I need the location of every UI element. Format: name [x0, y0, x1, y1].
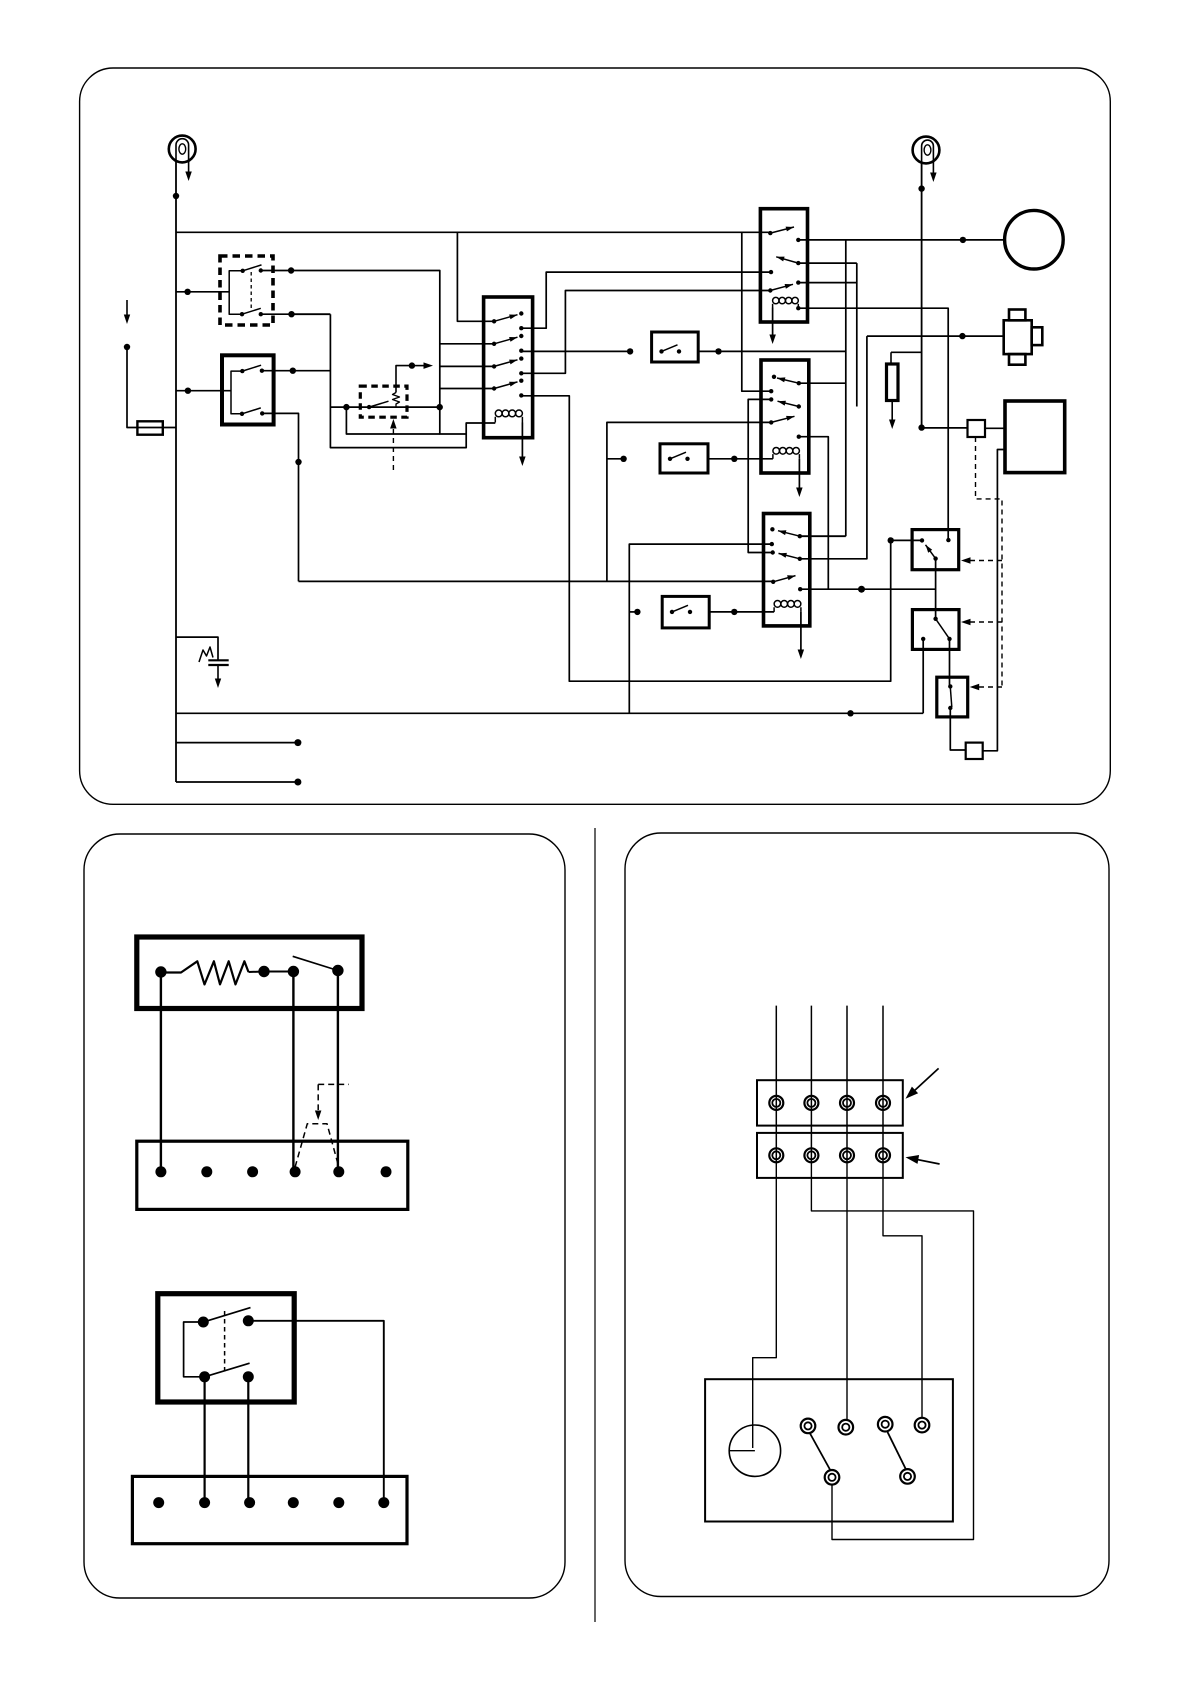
connector block CN2 — [757, 1133, 903, 1178]
junction dot — [288, 311, 294, 317]
thermostat anticipator wire — [396, 366, 412, 393]
wire to K2 common — [176, 390, 231, 392]
lamp L2 — [913, 137, 940, 164]
lamp L1 lead — [188, 160, 190, 172]
S2 contacts — [668, 457, 672, 461]
dashed jumper link — [295, 1124, 339, 1167]
wire to K3 arm4 — [440, 388, 494, 390]
CN1 pin 3 — [840, 1096, 854, 1110]
relay K3 — [484, 297, 533, 438]
thermostat switch arm — [367, 405, 371, 409]
wire K4 contact3 — [798, 282, 857, 284]
K6 contact 3 — [798, 587, 802, 591]
bottom common bus wire — [176, 712, 923, 714]
wire CN2-2 around to board switch — [811, 1162, 973, 1540]
TB1 terminal 5 — [333, 1166, 344, 1177]
K5 arm3 pivot — [769, 420, 773, 424]
junction dot — [634, 609, 640, 615]
stub wire 2 — [176, 781, 298, 783]
dashed actuator arrow to damper switch DS1 — [965, 560, 1003, 562]
K3 arm pivot 2 — [492, 342, 496, 346]
wire K3 out3 to K4 arm — [521, 291, 770, 374]
bottom-right panel border — [625, 833, 1109, 1597]
DS2 pivot — [947, 637, 951, 641]
K5 arm2 pivot — [797, 404, 801, 408]
PCB switch SW1 — [810, 1433, 831, 1471]
CN2 pin 3 — [840, 1148, 854, 1162]
buzzer B1 — [729, 1425, 780, 1476]
wire into damper switch DS1 — [891, 539, 922, 541]
DS2 switch arm — [936, 619, 950, 639]
K6 switch arm 1 — [778, 531, 800, 537]
K4 contact 1 — [796, 238, 800, 242]
DS1 contact R — [946, 538, 950, 542]
K3 switch arm 1 — [494, 315, 517, 322]
stub wire 1 — [176, 742, 298, 744]
mechanical link (dashed) — [224, 1311, 226, 1372]
K5 contact 2t — [769, 397, 773, 401]
wire DS2 to DS3 — [949, 639, 951, 687]
wire terminal3 to strip — [204, 1377, 206, 1503]
K3 NO contact 3 — [519, 356, 523, 360]
K1 contact pivot b — [240, 312, 244, 316]
relay terminal 1 — [198, 1317, 209, 1328]
arrow pointing to CN1 — [911, 1068, 938, 1093]
wire CN2-3 to board — [846, 1162, 848, 1420]
wire K5 to K6 contact — [748, 399, 773, 552]
wire OL to control box — [985, 427, 1005, 429]
dashed actuator arrow to damper switch DS2 — [965, 621, 1003, 623]
PCB pad 2 — [839, 1420, 854, 1435]
relay terminal 3 — [199, 1371, 210, 1382]
wire CN2-1 to board buzzer — [753, 1162, 777, 1448]
arrow down from L2 — [930, 173, 937, 183]
K6 arm2 pivot — [798, 557, 802, 561]
TB2 terminal 4 — [288, 1497, 299, 1508]
lead wire 1 — [775, 1006, 777, 1162]
K3 output contact 3 — [519, 371, 523, 375]
main wiring diagram panel border — [80, 68, 1111, 804]
wire K6 to bus x629 — [629, 544, 772, 713]
wire from K1 contact a — [261, 270, 291, 272]
K3 arm pivot 3 — [492, 364, 496, 368]
connector block CN1 — [757, 1080, 903, 1125]
top horizontal supply wire — [176, 231, 770, 233]
K3 arm pivot 4 — [492, 386, 496, 390]
wire B to C — [264, 971, 293, 973]
wire through thermostat — [330, 406, 441, 408]
junction dot — [847, 710, 853, 716]
arrow to external connection — [412, 365, 426, 367]
TB1 terminal 3 — [247, 1166, 258, 1177]
relay K4 — [760, 209, 807, 322]
node on left branch — [124, 344, 130, 350]
PCB pad 3 — [878, 1417, 893, 1432]
junction dot — [290, 368, 296, 374]
lamp L2 lead — [932, 161, 934, 173]
TB1 terminal 2 — [201, 1166, 212, 1177]
S1 contacts — [659, 349, 663, 353]
wire K4 to fan motor — [798, 239, 1004, 241]
K1 mechanical link (dashed) — [250, 272, 252, 310]
TB2 terminal 2 — [199, 1497, 210, 1508]
wire K3 out2 to switch S1 — [521, 350, 630, 352]
protector plate 1 — [208, 659, 228, 661]
K5 contact 1 — [769, 389, 773, 393]
damper switch DS1 — [912, 530, 959, 570]
switch S1 — [652, 332, 699, 362]
terminal strip TB1 — [137, 1141, 408, 1209]
wire CN2-4 to board — [883, 1162, 922, 1418]
TB1 terminal 4 — [290, 1166, 301, 1177]
relay K5 — [761, 360, 809, 473]
long wire to relay K5 arm — [299, 580, 774, 582]
CN2 pin 2 — [804, 1148, 818, 1162]
fan motor M1 — [1005, 210, 1064, 269]
buzzer pointer line — [729, 1450, 755, 1452]
K6 coil lead arrow down — [800, 612, 802, 650]
K6 switch arm 2 — [779, 553, 800, 558]
K1 switch arm b — [242, 308, 261, 314]
K6 contact 1t — [770, 527, 774, 531]
wire S2 to K5 coil — [708, 458, 773, 460]
wire terminal2 to strip — [248, 1321, 383, 1503]
arrow pointing to CN2 — [911, 1158, 940, 1164]
K2 switch arm a — [242, 365, 261, 371]
lamp L2 vertical wire — [921, 163, 923, 428]
incoming supply arrow — [126, 300, 128, 315]
wire bus to switch S3 — [629, 611, 637, 613]
vertical wire to K5 arm2 — [856, 263, 858, 406]
K2 contact pivot b — [240, 412, 244, 416]
wire K6 arm1 to motor-line vertical — [800, 535, 846, 537]
vertical wire motor line to K6 arm — [845, 240, 847, 536]
junction dot — [959, 333, 965, 339]
K5 arm1 pivot — [797, 381, 801, 385]
DS1 switch arm — [926, 545, 936, 559]
K4 arm3 pivot — [768, 288, 772, 292]
K2 contact a — [260, 369, 264, 373]
wire to K1 common — [176, 291, 229, 293]
PCB pad 6 — [900, 1469, 915, 1484]
K3 switch arm 4 — [494, 382, 517, 389]
K6 contact 1 — [770, 542, 774, 546]
wire DS3 to terminal — [950, 708, 965, 750]
wire K5 contact3 down — [799, 437, 829, 590]
relay K6 — [764, 514, 810, 626]
TB2 terminal 5 — [333, 1497, 344, 1508]
DS1 contact L — [920, 538, 924, 542]
overload protector OL — [968, 420, 986, 437]
wire K4 contact2 — [798, 262, 857, 264]
wire K1a feeding K3 switch bank — [291, 271, 466, 435]
K2 common bracket — [231, 371, 242, 414]
PCB pad 4 — [915, 1418, 930, 1433]
interlock switch DS3 — [937, 677, 968, 717]
PCB switch SW2 — [887, 1431, 906, 1470]
junction dot — [731, 456, 737, 462]
wire to dropping resistor — [891, 351, 922, 353]
junction dot — [185, 388, 191, 394]
thermostat TH (dashed outline) — [360, 386, 407, 417]
K5 switch arm 2 — [778, 401, 799, 406]
junction dot — [620, 456, 626, 462]
CN1 pin 2 — [804, 1096, 818, 1110]
K3 output contact 2 — [519, 349, 523, 353]
DS2 contact B — [921, 637, 925, 641]
wire K6 contact3 to damper circuit — [800, 588, 935, 590]
auxiliary heater relay box — [137, 937, 362, 1009]
DS1 pivot — [933, 556, 937, 560]
TB1 terminal 6 — [381, 1166, 392, 1177]
K3 NO contact 1 — [519, 311, 523, 315]
heater terminal C — [288, 966, 299, 977]
divider line between bottom panels — [594, 828, 596, 1622]
K4 coil lead arrow down — [772, 308, 774, 336]
DS2 contact T — [933, 617, 937, 621]
heater switch arm — [293, 956, 338, 970]
fuse F1 — [137, 421, 162, 434]
junction dot on K2b wire — [295, 459, 301, 465]
control box / thermostat unit — [1005, 401, 1065, 473]
wire from K1 contact b — [261, 313, 292, 315]
K3 output contact 4 — [519, 393, 523, 397]
junction dot — [627, 348, 633, 354]
K3 NO contact 2 — [519, 334, 523, 338]
CN2 pin 1 — [769, 1148, 783, 1162]
K3 switch arm 3 — [494, 360, 517, 367]
bottom-left panel border — [84, 834, 565, 1598]
reversing valve solenoid — [1004, 310, 1043, 365]
relay K1 (dashed outline) — [220, 256, 273, 325]
K3 output contact 1 — [519, 326, 523, 330]
wire to thermal protector — [176, 637, 218, 660]
wire control box to interlock switch — [983, 450, 1005, 751]
terminal block T1 — [966, 743, 983, 759]
protector plate 2 — [208, 664, 228, 666]
relay switch arm 1 — [203, 1308, 250, 1323]
dashed jumper indication arrow — [318, 1083, 349, 1085]
wire K3 out1 to K4 contact — [521, 272, 771, 328]
PCB pad 5 — [825, 1470, 840, 1485]
junction dot — [343, 404, 349, 410]
K4 arm2 pivot — [796, 261, 800, 265]
arrow down from L1 — [185, 172, 192, 182]
TB2 terminal 1 — [153, 1497, 164, 1508]
junction on main vertical — [173, 193, 179, 199]
heater terminal A — [155, 966, 166, 977]
K4 switch arm 2 — [776, 257, 798, 263]
DS3 contact T — [948, 684, 952, 688]
K3 switch arm 2 — [494, 337, 517, 344]
dashed mechanical sensing line (arrow up) — [392, 424, 394, 470]
junction dot — [918, 424, 924, 430]
changeover relay box — [158, 1294, 294, 1402]
wire to K3 arm2 — [440, 343, 494, 345]
TB2 terminal 6 — [378, 1497, 389, 1508]
relay switch arm 2 — [205, 1363, 250, 1377]
heater resistor element — [166, 961, 249, 984]
K2 contact b — [260, 411, 264, 415]
switch S2 — [660, 444, 708, 473]
wire from K2 contact a — [262, 370, 293, 372]
stub terminal dot — [294, 739, 301, 746]
common bracket wire — [184, 1322, 205, 1377]
thermostat resistor element — [393, 393, 400, 408]
lead wire 4 — [882, 1006, 884, 1162]
K4 coil terminal — [796, 306, 800, 310]
wire DS2 to bottom bus — [922, 639, 924, 713]
wire thermostat link to K1a bus — [346, 407, 439, 434]
heater terminal B — [258, 966, 269, 977]
K1 contact b — [259, 312, 263, 316]
control PCB outline — [705, 1379, 953, 1521]
wire K2a to bus — [293, 370, 331, 372]
wire to overload protector — [922, 427, 968, 429]
K3 arm pivot 1 — [492, 319, 496, 323]
wire K1b to bus — [292, 313, 331, 315]
wire K5 arm3 to bus — [607, 422, 771, 581]
K4 contact 2 — [769, 270, 773, 274]
wire A to terminal strip — [160, 972, 162, 1172]
junction dot — [731, 609, 737, 615]
wire from top supply to K3 arm1 — [457, 232, 494, 321]
junction dot — [715, 348, 721, 354]
lead wire 2 — [810, 1006, 812, 1162]
wire D to terminal strip — [337, 971, 339, 1172]
junction dot — [858, 586, 865, 593]
junction dot — [288, 267, 294, 273]
stub terminal dot — [294, 779, 301, 786]
S3 contacts — [670, 610, 674, 614]
wire K6 arm2 up — [800, 336, 867, 559]
K5 contact 3 — [797, 435, 801, 439]
CN1 pin 4 — [876, 1096, 890, 1110]
junction dot — [437, 404, 443, 410]
junction dot — [918, 185, 924, 191]
K4 switch arm 3 — [770, 284, 793, 290]
K6 arm1 pivot — [798, 534, 802, 538]
main supply vertical wire x=176 — [175, 162, 177, 782]
K4 contact 3 — [796, 280, 800, 284]
relay terminal 4 — [243, 1371, 254, 1382]
DS3 switch element — [950, 687, 952, 707]
wire S1 to relay K4 circuit — [698, 350, 846, 352]
CN2 pin 4 — [876, 1148, 890, 1162]
relay K2 — [222, 355, 274, 424]
K3 coil lead arrow down — [521, 423, 523, 458]
wire K3 out4 to damper switch — [521, 396, 890, 681]
junction dot — [409, 362, 415, 368]
lead wire 3 — [846, 1006, 848, 1162]
K1 contact pivot a — [241, 269, 245, 273]
DS3 contact B — [948, 706, 952, 710]
relay terminal 2 — [243, 1315, 254, 1326]
K4 arm1 pivot — [768, 231, 772, 235]
dashed mechanical linkage — [976, 437, 1003, 687]
thermal element squiggle — [199, 647, 213, 662]
wire left branch to fuse — [127, 347, 176, 428]
wire K5 arm1 to vertical — [799, 382, 846, 384]
K5 switch arm 1 — [777, 378, 799, 383]
junction dot — [960, 237, 966, 243]
K2 contact pivot a — [240, 369, 244, 373]
K5 contact 1t — [772, 375, 776, 379]
K3 NO contact 4 — [519, 379, 523, 383]
wire DS1 to DS2 — [935, 559, 937, 619]
CN1 pin 1 — [769, 1096, 783, 1110]
damper switch DS2 — [912, 610, 959, 650]
lamp L1 — [169, 136, 196, 163]
dashed actuator arrow to interlock DS3 — [973, 686, 1002, 688]
K4 switch arm 1 — [770, 227, 794, 233]
TB2 terminal 3 — [244, 1497, 255, 1508]
K3 coil — [495, 410, 522, 422]
heater terminal D — [332, 965, 343, 976]
TB1 terminal 1 — [155, 1166, 166, 1177]
K6 coil — [774, 601, 801, 612]
switch S3 — [662, 596, 709, 628]
wire to reversing valve — [867, 335, 1004, 337]
K4 coil — [773, 297, 799, 307]
K6 contact 2t — [771, 550, 775, 554]
K2 switch arm b — [242, 408, 261, 414]
R1 lead arrow down — [891, 401, 893, 421]
wire C to terminal strip — [292, 972, 294, 1172]
PCB pad 1 — [801, 1419, 816, 1434]
wire bus to switch S2 — [607, 458, 624, 460]
terminal strip TB2 — [132, 1476, 407, 1543]
K1 switch arm a — [243, 265, 262, 271]
K5 switch arm 3 — [771, 416, 794, 422]
wire to K3 arm3 — [440, 365, 494, 367]
wire S3 to K6 coil — [709, 611, 774, 613]
K5 coil — [773, 447, 800, 458]
wire terminal4 to strip — [247, 1377, 249, 1503]
junction dot — [184, 289, 190, 295]
protector lead arrow down — [217, 665, 219, 679]
vertical wire top supply to K5 — [742, 232, 771, 391]
resistor R1 — [887, 364, 899, 401]
bus wire from K1b to K3 coil — [330, 314, 495, 447]
wire K2b down — [262, 413, 298, 581]
junction dot — [888, 537, 894, 543]
K6 switch arm 3 — [773, 576, 795, 582]
K5 coil lead arrow down — [798, 459, 800, 488]
K6 arm3 pivot — [771, 580, 775, 584]
K1 contact a — [259, 268, 263, 272]
wire K4 coil to damper switch — [798, 308, 948, 540]
K1 common bracket — [229, 271, 243, 314]
